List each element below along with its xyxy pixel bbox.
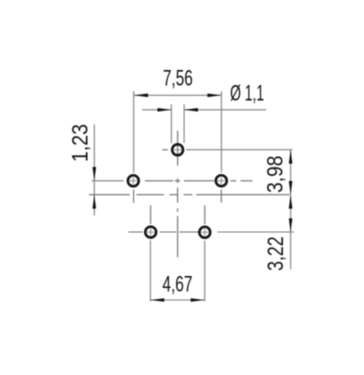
svg-text:3,98: 3,98: [262, 156, 287, 193]
arrow 7,56 right: [207, 94, 221, 98]
wire: extension line 4,67 left: [149, 240, 151, 301]
wire: extension line right of 7,56 (x=221.4): [220, 91, 222, 172]
node: center cross in mid-left hole: [130, 177, 137, 184]
wire: tangent extension left of diameter 1,1: [170, 104, 172, 143]
arrow 7,56 left: [134, 94, 148, 98]
arrow 1,23 bottom: [93, 195, 97, 209]
arrow 3,98 bottom: [289, 181, 293, 195]
hole top (pad 3): [172, 144, 183, 155]
wire: dimension line diameter 1,1 left part: [142, 109, 171, 111]
svg-text:3,22: 3,22: [263, 236, 288, 271]
hole bottom-left (pad 5): [145, 227, 156, 238]
arrow 3,22 bottom: [289, 218, 293, 232]
node: mid-right hole lower centerline stub: [220, 190, 222, 203]
wire: dimension line 7,56: [134, 94, 221, 96]
svg-text:7,56: 7,56: [163, 65, 193, 90]
node: center cross in mid-right hole: [218, 177, 225, 184]
arrow 4,67 right: [191, 298, 205, 302]
wire: extension line left of 7,56 (x=133.7): [133, 91, 135, 172]
arrow 3,98 top: [289, 150, 293, 164]
node: bottom-right hole upper centerline: [204, 205, 206, 224]
svg-text:Ø 1,1: Ø 1,1: [230, 81, 264, 106]
node: horizontal center axis (y=194.7): [89, 194, 290, 196]
node: vertical centerline through top hole and center: [177, 131, 179, 257]
node: center cross in bottom-left hole: [147, 229, 154, 236]
node: top hole horizontal centerline stubs: [162, 149, 168, 151]
arrow diameter 1,1 right: [184, 108, 198, 112]
node: center cross in top hole: [174, 149, 181, 151]
wire: extension line top row to right dim: [186, 149, 293, 151]
wire: extension line bottom row to right dim: [218, 231, 295, 233]
wire: dimension line diameter 1,1 right part: [184, 109, 266, 111]
arrow 3,22 top: [289, 195, 293, 209]
arrow 1,23 top: [93, 167, 97, 181]
hole bottom-right (pad 1): [199, 227, 210, 238]
svg-text:4,67: 4,67: [162, 272, 192, 297]
wire: extension line 4,67 right: [204, 241, 206, 302]
wire: dimension line 3,98 / 3,22 (vertical right): [290, 150, 292, 270]
wire: dimension line 1,23 (vertical): [93, 124, 95, 215]
arrow diameter 1,1 left: [158, 108, 172, 112]
node: bottom-left hole upper centerline: [150, 205, 152, 224]
node: horizontal centerline mid row (y=180.8): [145, 180, 253, 182]
node: horizontal centerline bottom row (y=232.0): [128, 231, 198, 233]
hole mid-right (pad 2): [216, 175, 227, 186]
arrow 4,67 left: [150, 298, 164, 302]
svg-text:1,23: 1,23: [67, 124, 92, 162]
node: mid-left hole lower centerline stub: [133, 190, 135, 203]
wire: extension line 1,23 top (to mid row): [92, 180, 124, 182]
hole mid-left (pad 4): [128, 175, 139, 186]
wire: tangent extension right of diameter 1,1: [183, 104, 185, 143]
wire: dimension line 4,67: [150, 299, 204, 301]
node: center cross in bottom-right hole: [201, 229, 208, 236]
